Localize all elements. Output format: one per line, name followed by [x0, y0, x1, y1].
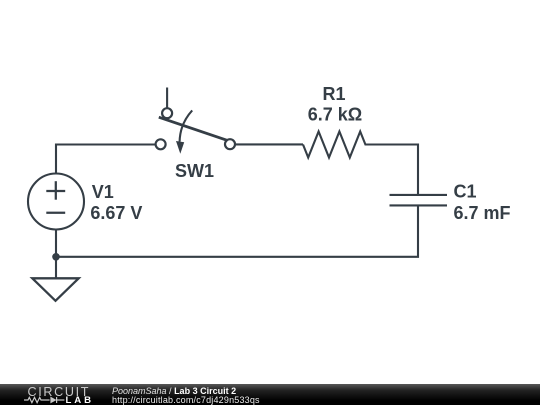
svg-text:C1: C1 — [454, 181, 477, 201]
svg-text:R1: R1 — [322, 84, 345, 104]
svg-text:6.7 mF: 6.7 mF — [454, 203, 511, 223]
svg-text:SW1: SW1 — [175, 161, 214, 181]
svg-text:6.7 kΩ: 6.7 kΩ — [308, 105, 362, 125]
svg-text:V1: V1 — [92, 182, 114, 202]
svg-text:6.67 V: 6.67 V — [90, 203, 142, 223]
svg-text:LAB: LAB — [66, 395, 94, 405]
